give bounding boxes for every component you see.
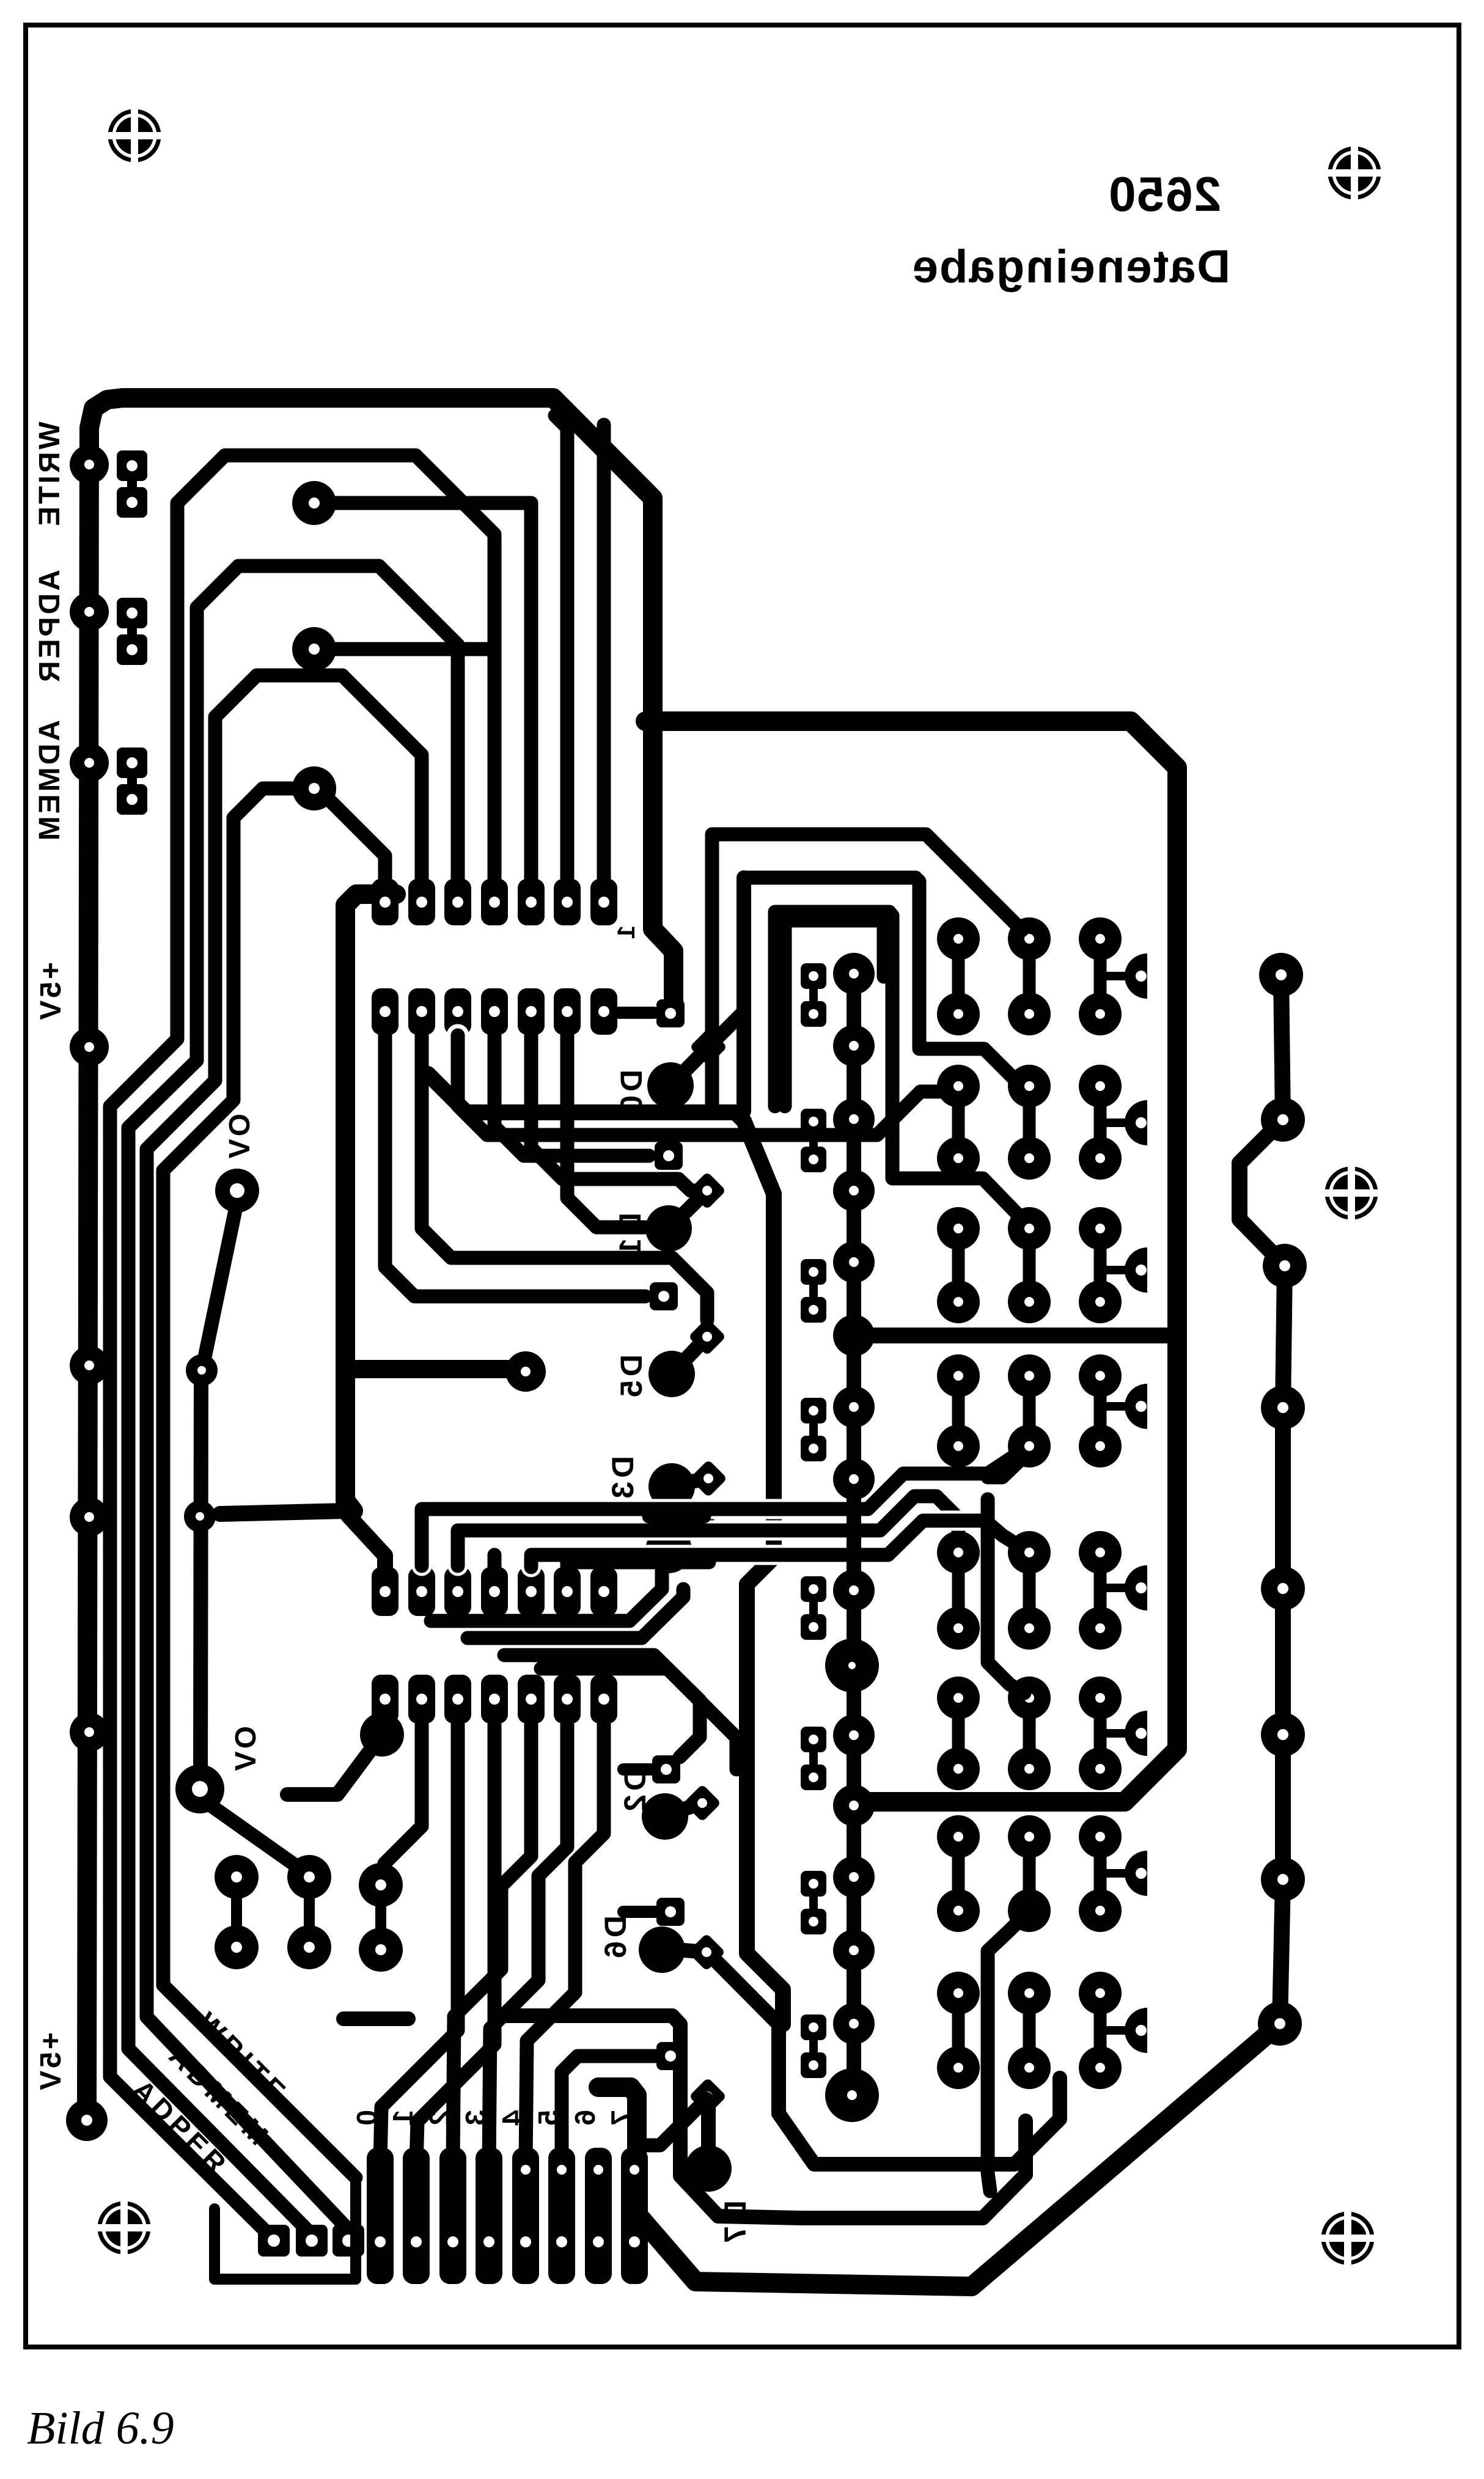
svg-text:D2: D2 (618, 1769, 652, 1815)
svg-text:7: 7 (605, 2110, 637, 2129)
svg-text:2650: 2650 (1107, 167, 1221, 221)
svg-text:+5V: +5V (35, 2032, 67, 2093)
svg-text:ADMEM: ADMEM (34, 720, 66, 843)
svg-text:1: 1 (387, 2110, 419, 2129)
svg-text:OV: OV (230, 1726, 262, 1773)
svg-text:D6: D6 (598, 1915, 633, 1962)
svg-text:D3: D3 (606, 1456, 640, 1502)
svg-text:Dateneingabe: Dateneingabe (911, 241, 1230, 293)
svg-text:D1: D1 (613, 1213, 647, 1259)
svg-text:Bild 6.9: Bild 6.9 (27, 2403, 174, 2454)
svg-text:3: 3 (460, 2110, 491, 2129)
svg-text:2: 2 (424, 2110, 455, 2129)
svg-text:D0: D0 (614, 1070, 648, 1116)
svg-text:ADPER: ADPER (34, 570, 66, 685)
svg-text:5: 5 (532, 2110, 564, 2129)
svg-text:D5: D5 (614, 1354, 648, 1401)
svg-text:OV: OV (224, 1114, 256, 1161)
svg-text:6: 6 (569, 2110, 601, 2129)
svg-text:0: 0 (351, 2110, 383, 2129)
svg-text:D7: D7 (718, 2200, 752, 2247)
svg-text:4: 4 (496, 2110, 528, 2129)
svg-text:WRITE: WRITE (34, 422, 66, 529)
svg-text:1: 1 (613, 925, 640, 939)
svg-text:+5V: +5V (35, 962, 67, 1023)
